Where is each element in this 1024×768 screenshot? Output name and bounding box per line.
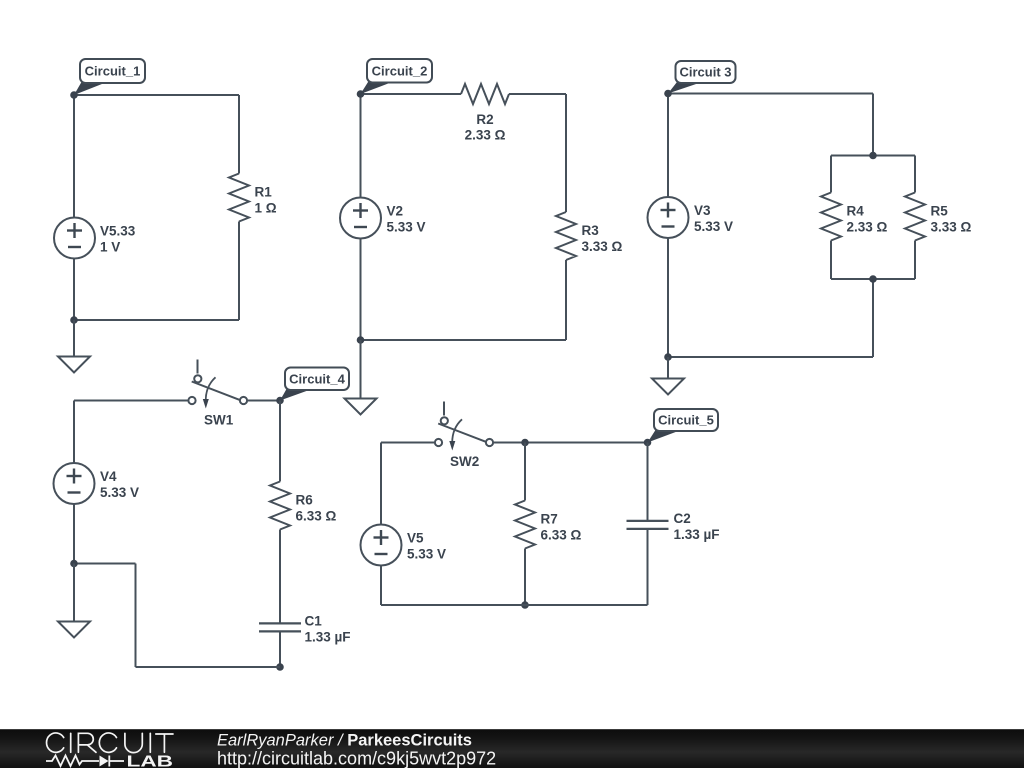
wire left lower (Circuit_5)	[380, 566, 382, 606]
svg-text:V5.33: V5.33	[100, 224, 136, 239]
wire bottom (Circuit 3)	[668, 356, 873, 358]
letter T	[156, 734, 173, 752]
ground (Circuit_1)	[58, 357, 90, 373]
wire bottom riser (Circuit_4)	[135, 564, 137, 668]
wire top-left segment (Circuit_2)	[361, 93, 462, 95]
wire bottom (Circuit_1)	[74, 319, 239, 321]
logo CIRCUIT wordmark	[47, 733, 173, 753]
switch SW1	[188, 360, 247, 409]
svg-text:6.33 Ω: 6.33 Ω	[541, 528, 582, 543]
node junction switch-R7 (Circuit_5)	[521, 439, 529, 447]
voltage source V2	[340, 198, 381, 239]
wire C1 down to node (Circuit_4)	[279, 631, 281, 667]
svg-text:Circuit_2: Circuit_2	[372, 63, 428, 78]
svg-text:3.33 Ω: 3.33 Ω	[931, 220, 972, 235]
svg-text:C2: C2	[674, 511, 691, 526]
svg-text:R4: R4	[847, 204, 865, 219]
wire right upper to C2 (Circuit_5)	[647, 443, 649, 521]
node junction bottom-left (Circuit_2)	[357, 336, 365, 344]
svg-text:Circuit_4: Circuit_4	[289, 371, 345, 386]
svg-text:1.33 µF: 1.33 µF	[674, 527, 720, 542]
svg-text:EarlRyanParker / ParkeesCircui: EarlRyanParker / ParkeesCircuits	[217, 732, 472, 750]
wire left branch lower (Circuit 3)	[830, 241, 832, 280]
wire top-left to switch (Circuit_5)	[381, 442, 435, 444]
wire right lower (Circuit_2)	[565, 260, 567, 340]
label SW1	[204, 413, 234, 428]
node junction bottom-left (Circuit 3)	[664, 353, 672, 361]
wire R6 to C1 (Circuit_4)	[279, 530, 281, 624]
wire left lower (Circuit_1)	[73, 259, 75, 321]
wire bottom (Circuit_2)	[361, 339, 567, 341]
wire left upper (Circuit 3)	[667, 94, 669, 198]
capacitor C2	[627, 521, 669, 529]
footer bar	[0, 729, 1024, 768]
wire R7 to bottom (Circuit_5)	[524, 549, 526, 606]
svg-text:SW1: SW1	[204, 413, 234, 428]
svg-text:SW2: SW2	[450, 454, 479, 469]
label V2 value	[387, 204, 426, 235]
voltage source V3	[648, 197, 689, 238]
svg-text:1 Ω: 1 Ω	[255, 201, 277, 216]
wire top-right segment (Circuit_2)	[509, 93, 566, 95]
letter U	[125, 733, 142, 752]
svg-text:R2: R2	[476, 112, 493, 127]
resistor R5	[905, 193, 925, 241]
node junction top-left (Circuit_1)	[70, 91, 78, 99]
wire right upper (Circuit_1)	[238, 95, 240, 174]
resistor R7	[515, 501, 535, 549]
wire right branch upper (Circuit 3)	[914, 156, 916, 193]
svg-text:1.33 µF: 1.33 µF	[305, 630, 351, 645]
resistor R4	[821, 193, 841, 241]
logo resistor-diode glyph	[46, 756, 124, 767]
resistor R3	[556, 212, 576, 260]
wire right upper (Circuit_2)	[565, 94, 567, 212]
wire parallel top rail (Circuit 3)	[831, 155, 915, 157]
node label Circuit_4	[280, 368, 349, 401]
svg-text:1 V: 1 V	[100, 240, 120, 255]
resistor R1	[229, 174, 249, 222]
wire switch to node (Circuit_4)	[247, 400, 280, 402]
wire to ground (Circuit_1)	[73, 320, 75, 356]
node label Circuit_2	[361, 59, 433, 94]
label R5 value	[931, 204, 972, 235]
node junction switch-R6 (Circuit_4)	[276, 397, 284, 405]
wire parallel bottom rail (Circuit 3)	[831, 278, 915, 280]
node junction parallel top (Circuit 3)	[869, 152, 877, 160]
wire left stub (Circuit_4)	[74, 563, 136, 565]
svg-text:LAB: LAB	[127, 754, 174, 768]
svg-text:R7: R7	[541, 512, 558, 527]
node junction R7-bottom (Circuit_5)	[521, 601, 529, 609]
svg-text:R6: R6	[296, 493, 314, 508]
label V3 value	[694, 203, 733, 234]
svg-text:Circuit_5: Circuit_5	[658, 413, 714, 428]
wire left branch upper (Circuit 3)	[830, 156, 832, 193]
label C2 value	[674, 511, 720, 542]
wire bottom horizontal (Circuit_4)	[136, 666, 281, 668]
node junction top-right (Circuit_5)	[644, 439, 652, 447]
svg-text:Circuit_1: Circuit_1	[85, 64, 141, 79]
resistor R2	[461, 84, 509, 104]
svg-text:V5: V5	[407, 531, 424, 546]
wire right lower (Circuit_1)	[238, 222, 240, 321]
node junction C1-bottom (Circuit_4)	[276, 663, 284, 671]
label R1 value	[255, 185, 277, 216]
wire node down to R7 (Circuit_5)	[524, 443, 526, 501]
label SW2	[450, 454, 479, 469]
svg-text:Circuit 3: Circuit 3	[679, 65, 731, 80]
node junction top-left (Circuit_2)	[357, 90, 365, 98]
svg-text:5.33 V: 5.33 V	[407, 547, 446, 562]
label C1 value	[305, 614, 351, 645]
node junction left-bottom (Circuit_4)	[70, 560, 78, 568]
svg-text:V3: V3	[694, 203, 711, 218]
wire left upper (Circuit_2)	[360, 94, 362, 198]
voltage source V1 (V5.33)	[54, 218, 95, 259]
wire feed down to parallel block (Circuit 3)	[872, 94, 874, 156]
ground (Circuit_2)	[345, 399, 377, 415]
letter I	[70, 733, 72, 752]
wire bottom (Circuit_5)	[381, 604, 648, 606]
ground (Circuit 3)	[652, 379, 684, 395]
svg-text:V2: V2	[387, 204, 404, 219]
label V5.33 value	[100, 224, 136, 255]
letter I	[149, 733, 151, 752]
letter C	[99, 733, 116, 752]
node junction parallel bottom (Circuit 3)	[869, 275, 877, 283]
wire left lower (Circuit_4)	[73, 504, 75, 564]
label R2 value	[465, 112, 506, 143]
wire left lower (Circuit 3)	[667, 238, 669, 357]
label R4 value	[847, 204, 888, 235]
switch SW2	[435, 402, 493, 451]
svg-text:5.33 V: 5.33 V	[387, 220, 426, 235]
ground (Circuit_4)	[58, 622, 90, 638]
node label Circuit_1	[74, 59, 145, 95]
svg-text:2.33 Ω: 2.33 Ω	[465, 127, 506, 142]
svg-text:5.33 V: 5.33 V	[694, 219, 733, 234]
wire node down to R6 (Circuit_4)	[279, 401, 281, 482]
node label Circuit 3	[668, 61, 736, 94]
wire top (Circuit 3)	[668, 93, 873, 95]
wire switch to node (Circuit_5)	[493, 442, 647, 444]
wire to ground (Circuit_2)	[360, 340, 362, 398]
svg-text:R3: R3	[582, 223, 600, 238]
svg-text:2.33 Ω: 2.33 Ω	[847, 220, 888, 235]
svg-text:V4: V4	[100, 469, 117, 484]
label V5 value	[407, 531, 446, 562]
wire to ground (Circuit_4)	[73, 564, 75, 622]
label R6 value	[296, 493, 337, 524]
wire left upper (Circuit_1)	[73, 95, 75, 218]
label R3 value	[582, 223, 623, 254]
svg-text:3.33 Ω: 3.33 Ω	[582, 239, 623, 254]
wire to ground (Circuit 3)	[667, 357, 669, 378]
label R7 value	[541, 512, 582, 543]
capacitor C1	[259, 623, 301, 631]
node junction bottom-left (Circuit_1)	[70, 316, 78, 324]
letter C	[47, 733, 64, 752]
node label Circuit_5	[648, 409, 719, 443]
voltage source V5	[361, 525, 402, 566]
svg-text:6.33 Ω: 6.33 Ω	[296, 509, 337, 524]
wire right branch lower (Circuit 3)	[914, 241, 916, 280]
wire from parallel block down (Circuit 3)	[872, 279, 874, 357]
wire left lower (Circuit_2)	[360, 239, 362, 341]
svg-text:R5: R5	[931, 204, 949, 219]
svg-text:C1: C1	[305, 614, 323, 629]
svg-text:http://circuitlab.com/c9kj5wvt: http://circuitlab.com/c9kj5wvt2p972	[217, 749, 496, 768]
svg-text:5.33 V: 5.33 V	[100, 485, 139, 500]
wire top-left to switch (Circuit_4)	[74, 400, 188, 402]
voltage source V4	[54, 463, 95, 504]
resistor R6	[270, 482, 290, 530]
wire top (Circuit_1)	[74, 94, 239, 96]
wire left upper (Circuit_5)	[380, 443, 382, 525]
node junction top-left (Circuit 3)	[664, 90, 672, 98]
label V4 value	[100, 469, 139, 500]
letter R	[78, 733, 96, 752]
wire left upper (Circuit_4)	[73, 401, 75, 464]
svg-text:R1: R1	[255, 185, 273, 200]
wire C2 down (Circuit_5)	[647, 529, 649, 605]
